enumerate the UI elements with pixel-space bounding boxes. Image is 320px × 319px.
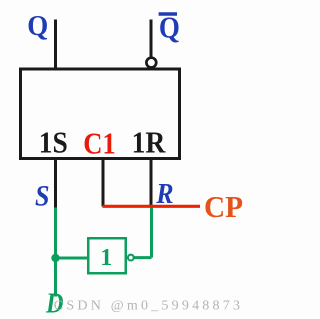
svg-text:S: S [35,179,50,212]
svg-text:Q: Q [27,10,48,42]
svg-text:1S: 1S [39,124,68,159]
svg-text:C1: C1 [83,125,116,160]
svg-text:1R: 1R [132,124,166,159]
svg-text:Q: Q [159,11,180,45]
svg-text:CP: CP [204,189,243,224]
svg-text:1: 1 [100,245,112,271]
svg-text:CSDN @m0_59948873: CSDN @m0_59948873 [54,299,243,314]
svg-text:R: R [155,179,173,210]
